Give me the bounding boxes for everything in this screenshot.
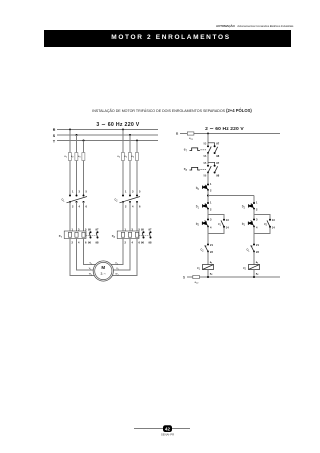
svg-text:2: 2 (125, 241, 127, 245)
fuse e3 (78, 153, 85, 161)
motor terminal u1 (90, 261, 94, 266)
node tap R1 (122, 129, 124, 131)
thermal contact e7 95-96 97-98 (184, 141, 220, 158)
svg-text:97: 97 (149, 228, 152, 232)
branch2 wire vertical segA (253, 196, 255, 204)
wire main vertical seg1 (207, 134, 209, 146)
svg-text:R: R (53, 128, 56, 132)
motor terminal v2 (116, 266, 119, 271)
document header small text (216, 24, 296, 28)
svg-text:c2: c2 (200, 248, 204, 253)
wire branch L1 upper (69, 130, 71, 153)
thermal contact e8 95-96 97-98 (184, 161, 220, 178)
phase T label (53, 139, 56, 143)
wire motor feed L3 (84, 239, 96, 265)
branch2 wire vertical segD (253, 252, 255, 265)
wire main vertical seg4 (207, 190, 209, 203)
svg-text:96: 96 (88, 241, 91, 245)
svg-text:e7: e7 (59, 234, 63, 239)
svg-text:3: 3 (210, 218, 212, 222)
svg-text:4: 4 (256, 226, 258, 230)
svg-text:22: 22 (210, 250, 213, 254)
control phase S label (183, 276, 186, 280)
svg-text:a1: a1 (256, 261, 259, 265)
svg-text:14: 14 (226, 226, 229, 230)
svg-text:96: 96 (203, 154, 206, 158)
svg-text:a1: a1 (210, 261, 213, 265)
svg-text:e1: e1 (64, 154, 68, 159)
wire main vertical seg3 (207, 172, 209, 184)
svg-text:e7: e7 (184, 148, 188, 153)
holding contact c2 13-14 (264, 218, 275, 230)
svg-text:c1: c1 (61, 198, 65, 203)
phase S label (53, 134, 56, 138)
svg-text:c1: c1 (197, 266, 201, 271)
svg-text:96: 96 (203, 173, 206, 177)
svg-text:6: 6 (85, 241, 87, 245)
svg-text:R: R (176, 132, 179, 136)
wire main vertical seg5 (207, 209, 209, 220)
overload relay e8 aux contacts 95-96 97-98 (139, 228, 152, 245)
pushbutton b1 NC branch1 (196, 201, 212, 212)
motor terminal w2 (115, 272, 119, 277)
wire branch R2 lower (129, 202, 131, 231)
coil c1 (197, 261, 214, 276)
fuse e22 (193, 275, 200, 284)
svg-text:6: 6 (139, 205, 141, 209)
svg-text:1: 1 (125, 190, 127, 194)
svg-text:3: 3 (132, 190, 134, 194)
motor M 3~ (93, 261, 113, 281)
svg-text:b1: b1 (242, 222, 246, 227)
svg-text:42: 42 (165, 426, 170, 431)
svg-text:97: 97 (216, 161, 219, 165)
motor terminal v1 (89, 266, 92, 271)
svg-text:1: 1 (210, 201, 212, 205)
wire phase R rail (57, 129, 158, 131)
wire branch R2 mid (129, 161, 131, 196)
svg-text:95: 95 (141, 228, 144, 232)
motor terminal u2 (115, 261, 119, 266)
wire branch R1 lower (122, 202, 124, 231)
svg-text:c1: c1 (246, 248, 250, 253)
svg-text:96: 96 (141, 241, 144, 245)
wire branch L1 mid (69, 161, 71, 196)
svg-text:e5: e5 (124, 154, 128, 159)
svg-text:c2: c2 (114, 198, 118, 203)
wire branch L3 lower (83, 202, 85, 231)
fuse e6 (131, 153, 138, 161)
motor terminal w1 (89, 272, 93, 277)
svg-text:3: 3 (79, 190, 81, 194)
wire branch R3 lower (136, 202, 138, 231)
svg-text:3 ∼ 60 Hz 220 V: 3 ∼ 60 Hz 220 V (96, 122, 139, 128)
svg-text:2: 2 (256, 207, 258, 211)
svg-text:e8: e8 (112, 234, 116, 239)
title bar (44, 30, 291, 47)
svg-text:98: 98 (216, 154, 219, 158)
svg-text:SENAI-PR: SENAI-PR (161, 432, 174, 436)
wire holding loop c1 (208, 214, 224, 233)
pushbutton b2 NO branch1 (196, 218, 212, 230)
wire phase S rail (57, 134, 158, 136)
node main branch tap (207, 133, 209, 135)
footer imprint (161, 432, 174, 436)
svg-text:14: 14 (272, 226, 275, 230)
svg-text:21: 21 (256, 243, 259, 247)
svg-text:2: 2 (125, 205, 127, 209)
wire branch R1 upper (122, 130, 124, 153)
node tap L2 (76, 134, 78, 136)
svg-text:e8: e8 (184, 167, 188, 172)
svg-text:6: 6 (86, 205, 88, 209)
svg-text:b2: b2 (242, 205, 246, 210)
node tap R2 (129, 134, 131, 136)
svg-text:c1: c1 (218, 222, 222, 227)
wire coil c1 to rail (207, 270, 209, 278)
svg-text:1: 1 (210, 182, 212, 186)
wire coil c2 to rail (253, 270, 255, 278)
svg-text:S: S (53, 134, 56, 138)
svg-text:13: 13 (226, 218, 229, 222)
svg-text:13: 13 (272, 218, 275, 222)
svg-text:4: 4 (79, 205, 81, 209)
svg-text:5: 5 (86, 190, 88, 194)
overload relay e7 (59, 228, 87, 245)
pushbutton b2 NC branch2 (242, 201, 258, 212)
wire branch L2 upper (76, 135, 78, 153)
svg-text:a2: a2 (210, 273, 213, 277)
svg-text:2: 2 (210, 189, 212, 193)
coil c2 (243, 261, 260, 276)
svg-text:M: M (101, 265, 105, 270)
subtitle (0, 108, 320, 113)
footer rule (134, 428, 190, 430)
svg-text:e22: e22 (195, 280, 200, 285)
pushbutton b1 NO branch2 (242, 218, 258, 230)
wire branch L2 mid (76, 161, 78, 196)
wire branch R2 upper (129, 135, 131, 153)
holding contact c1 13-14 (218, 218, 229, 230)
fuse e4 (117, 153, 124, 161)
wire branch L3 mid (83, 161, 85, 196)
control phase R label (176, 132, 179, 136)
node tap R3 (136, 140, 138, 142)
wire phase T rail (57, 140, 158, 142)
wire main vertical seg6 (207, 227, 209, 245)
svg-text:21: 21 (210, 243, 213, 247)
footer page badge (163, 425, 172, 432)
svg-text:4: 4 (132, 241, 134, 245)
svg-text:e2: e2 (71, 154, 75, 159)
wire branch R1 mid (122, 161, 124, 196)
svg-text:2: 2 (72, 205, 74, 209)
svg-text:e21: e21 (189, 136, 194, 141)
svg-text:e6: e6 (131, 154, 135, 159)
contactor c1 main contacts (61, 190, 87, 209)
interlock contact c2 21-22 (200, 243, 213, 254)
node branch split (207, 195, 209, 197)
svg-text:c2: c2 (264, 222, 268, 227)
svg-text:1: 1 (256, 201, 258, 205)
wire branch L3 upper (83, 141, 85, 153)
wire branch R3 mid (136, 161, 138, 196)
wire control top rail (180, 133, 280, 135)
svg-text:1: 1 (72, 190, 74, 194)
svg-text:a2: a2 (256, 273, 259, 277)
interlock contact c1 21-22 (246, 243, 259, 254)
svg-text:97: 97 (216, 141, 219, 145)
fuse e5 (124, 153, 131, 161)
pushbutton b0 NC (196, 182, 212, 193)
svg-text:22: 22 (256, 250, 259, 254)
wire branch R3 upper (136, 141, 138, 153)
fuse e2 (71, 153, 78, 161)
wire motor feed R2 (113, 239, 130, 271)
svg-text:3: 3 (256, 218, 258, 222)
svg-text:97: 97 (96, 228, 99, 232)
svg-text:2 ∼ 60 Hz 220 V: 2 ∼ 60 Hz 220 V (205, 126, 244, 132)
svg-text:e3: e3 (78, 154, 82, 159)
wire holding loop c2 (254, 214, 270, 233)
wire motor feed L1 (70, 239, 94, 276)
svg-text:5: 5 (139, 190, 141, 194)
wire branch connector (208, 195, 254, 197)
wire branch L2 lower (76, 202, 78, 231)
overload relay e7 aux contacts 95-96 97-98 (86, 228, 99, 245)
right circuit title (205, 126, 244, 132)
overload relay e8 (112, 228, 141, 245)
contactor c2 main contacts (114, 190, 141, 209)
fuse e21 (187, 132, 194, 141)
wire main vertical seg2 (207, 153, 209, 165)
svg-text:4: 4 (132, 205, 134, 209)
wire branch L1 lower (69, 202, 71, 231)
node tap L3 (83, 140, 85, 142)
wire motor feed R3 (112, 239, 137, 276)
node coil c1 rail junction (207, 276, 209, 278)
left circuit title (96, 122, 139, 128)
phase R label (53, 128, 56, 132)
branch2 wire vertical segB (253, 209, 255, 220)
svg-text:95: 95 (203, 141, 206, 145)
fuse e1 (64, 153, 71, 161)
svg-text:98: 98 (216, 173, 219, 177)
svg-text:4: 4 (210, 226, 212, 230)
svg-text:b2: b2 (196, 222, 200, 227)
svg-text:b1: b1 (196, 205, 200, 210)
svg-text:98: 98 (96, 241, 99, 245)
node tap L1 (69, 129, 71, 131)
svg-text:S: S (183, 276, 186, 280)
svg-text:c2: c2 (243, 266, 247, 271)
branch2 wire vertical segC (253, 227, 255, 245)
svg-text:T: T (53, 139, 56, 143)
wire motor feed L2 (77, 239, 94, 271)
svg-text:2: 2 (72, 241, 74, 245)
svg-text:e4: e4 (117, 154, 121, 159)
svg-text:2: 2 (210, 207, 212, 211)
svg-text:95: 95 (88, 228, 91, 232)
wire main vertical seg7 (207, 252, 209, 265)
wire control bottom rail (187, 276, 280, 278)
wire motor feed R1 (111, 239, 123, 265)
svg-text:98: 98 (149, 241, 152, 245)
svg-text:95: 95 (203, 161, 206, 165)
svg-text:b0: b0 (196, 186, 200, 191)
svg-text:3 ∼: 3 ∼ (100, 272, 106, 276)
node coil c2 rail junction (253, 276, 255, 278)
svg-text:4: 4 (78, 241, 80, 245)
